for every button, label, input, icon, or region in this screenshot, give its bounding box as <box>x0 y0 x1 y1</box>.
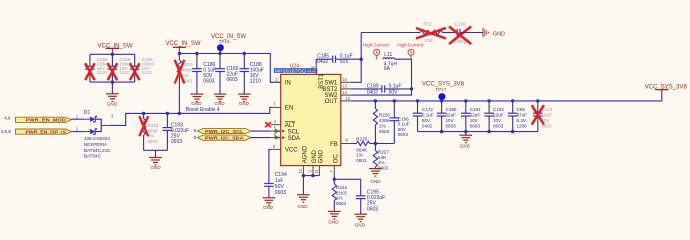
inductor L11 <box>383 52 398 72</box>
svg-text:0603: 0603 <box>470 124 481 129</box>
capacitor C160 <box>215 54 238 95</box>
junction (R219/EN) <box>178 112 181 115</box>
svg-text:High Current: High Current <box>363 43 390 48</box>
pin 14 SW2 <box>341 94 351 96</box>
junction (C191/bottom) <box>464 130 467 133</box>
svg-text:4,8: 4,8 <box>4 116 11 121</box>
pin 4 ALT (no connect, crossed) <box>265 119 296 129</box>
ground (C160) <box>214 94 227 106</box>
wire BST1 to C185 <box>316 58 333 60</box>
svg-text:R223: R223 <box>336 185 347 190</box>
svg-text:1206: 1206 <box>517 124 528 129</box>
capacitor C194 <box>264 172 287 198</box>
junction (left bank top) <box>111 53 114 56</box>
junction (SW2/C189/L11) <box>410 87 413 90</box>
junction (FB node) <box>374 142 377 145</box>
svg-text:GND: GND <box>151 165 162 170</box>
svg-text:106-2-00404: 106-2-00404 <box>84 136 110 141</box>
port PWR_EN_ISP_IS <box>16 129 72 135</box>
svg-text:NEXPERIA: NEXPERIA <box>84 142 108 147</box>
svg-text:14: 14 <box>342 90 347 95</box>
wire snubber top <box>361 32 420 34</box>
svg-text:1%: 1% <box>379 123 386 128</box>
svg-text:GND: GND <box>355 222 366 227</box>
capacitor C155 (not fitted) <box>85 54 110 82</box>
svg-text:C190: C190 <box>446 107 457 112</box>
wire C185 to SW1 node <box>336 58 362 60</box>
svg-text:C191: C191 <box>470 107 481 112</box>
svg-text:SW1: SW1 <box>324 81 338 87</box>
svg-text:GND: GND <box>214 101 225 106</box>
svg-text:ALT: ALT <box>285 123 296 129</box>
svg-text:OUT: OUT <box>325 99 338 105</box>
pin 1 IN <box>271 81 281 83</box>
svg-text:50V: 50V <box>340 59 350 65</box>
junction (C88/OUT) <box>511 99 514 102</box>
svg-text:PWR_EN_MOD: PWR_EN_MOD <box>26 118 67 124</box>
svg-text:47uF: 47uF <box>517 113 528 118</box>
svg-text:0402: 0402 <box>422 124 433 129</box>
pin 10 AGND (bottom) <box>302 166 304 176</box>
svg-text:12: 12 <box>345 96 350 101</box>
net label VCC_SYS_3V8 + testpoint TP17 <box>422 82 465 101</box>
ground (left cap bank) <box>106 82 119 107</box>
svg-text:C172: C172 <box>422 107 433 112</box>
ground (R212/C193) <box>149 150 162 170</box>
svg-text:High Current: High Current <box>397 43 424 48</box>
pin 13 BST2 <box>341 88 351 90</box>
junction (TP16-C160/rail) <box>218 52 221 55</box>
svg-text:0603: 0603 <box>446 124 457 129</box>
svg-text:0603: 0603 <box>148 139 159 144</box>
svg-text:GND: GND <box>460 144 471 149</box>
junction (SW1/L11/C185/snubber) <box>360 58 363 61</box>
svg-text:GND: GND <box>239 101 250 106</box>
wire R72 to C116 <box>443 32 458 34</box>
svg-text:EN: EN <box>285 106 293 112</box>
svg-text:R227: R227 <box>378 150 389 155</box>
svg-text:TP17: TP17 <box>435 87 446 92</box>
ground (C188) <box>238 94 251 106</box>
wire BST1 riser <box>315 59 317 65</box>
pin 1 stub D1 <box>84 118 90 120</box>
pin 16 BST1 (top) <box>311 65 325 89</box>
capacitor C88 <box>508 101 527 132</box>
svg-text:0603: 0603 <box>493 124 504 129</box>
wire FB network bottom <box>375 143 394 145</box>
svg-text:C189: C189 <box>367 83 379 89</box>
svg-text:1210: 1210 <box>250 79 261 85</box>
svg-text:10E: 10E <box>425 38 433 43</box>
wire VCC_IN_SW rail to IC IN pin <box>179 54 280 83</box>
capacitor C123 (not fitted) <box>532 101 553 132</box>
svg-text:0603: 0603 <box>203 79 214 85</box>
svg-text:0402: 0402 <box>317 59 328 65</box>
svg-text:GND: GND <box>107 102 118 107</box>
junction (C186/rail) <box>195 52 198 55</box>
ground (C194) <box>263 198 276 210</box>
svg-text:FB: FB <box>330 142 338 148</box>
svg-text:BAT54C: BAT54C <box>84 153 102 158</box>
svg-text:9A: 9A <box>384 66 391 72</box>
capacitor C191 <box>461 101 481 132</box>
svg-text:10V: 10V <box>470 118 479 123</box>
resistor R223 <box>332 179 347 211</box>
svg-text:VCC_IN_SW: VCC_IN_SW <box>166 41 201 47</box>
svg-text:GND: GND <box>297 204 308 209</box>
svg-text:C116: C116 <box>455 22 466 27</box>
svg-text:1210: 1210 <box>142 70 153 75</box>
svg-text:54K: 54K <box>378 155 387 160</box>
pin 8 FB <box>341 143 351 145</box>
junction (C191/OUT) <box>464 99 467 102</box>
resistor R212 (not fitted) <box>139 113 159 150</box>
wire L11 right riser to SW2 <box>395 59 412 89</box>
svg-text:6.3V: 6.3V <box>517 118 527 123</box>
ground (output caps) <box>460 132 473 149</box>
svg-text:PWR_I2C_SDA: PWR_I2C_SDA <box>205 136 244 142</box>
svg-text:499K: 499K <box>182 68 194 73</box>
capacitor C193 <box>163 113 190 150</box>
wire R212/C193 bottoms <box>144 149 168 151</box>
junction (C193/EN) <box>166 112 169 115</box>
svg-text:4,6,8: 4,6,8 <box>1 129 12 134</box>
svg-text:GND: GND <box>328 220 339 225</box>
svg-text:10V: 10V <box>493 118 502 123</box>
svg-text:VCC: VCC <box>285 148 298 154</box>
ground (C195) <box>354 214 367 227</box>
capacitor C188 <box>240 54 264 95</box>
svg-text:L11: L11 <box>384 52 392 58</box>
capacitor C192 <box>484 101 504 132</box>
svg-text:AGND: AGND <box>303 145 309 163</box>
svg-text:0603: 0603 <box>398 132 409 137</box>
capacitor C172 <box>413 101 434 132</box>
junction (OC) <box>333 178 336 181</box>
svg-text:IN: IN <box>285 81 291 87</box>
svg-text:C192: C192 <box>493 107 504 112</box>
junction (C196/OUT) <box>393 99 396 102</box>
svg-text:50V: 50V <box>422 118 431 123</box>
wire output caps bottom rail <box>418 131 538 133</box>
svg-text:0603: 0603 <box>378 166 389 171</box>
svg-text:GND: GND <box>191 101 202 106</box>
ground (C186) <box>191 94 204 106</box>
junction (GND pin2) <box>311 174 314 177</box>
junction (C192/bottom) <box>487 130 490 133</box>
wire VCC pin to C194 <box>269 149 271 183</box>
svg-text:22uF: 22uF <box>541 113 552 118</box>
wire OC to C195 <box>334 179 360 196</box>
power port VCC_IN_SW (left cap bank) <box>98 43 133 54</box>
svg-text:OC: OC <box>334 154 340 164</box>
ground (snubber, rotated) <box>483 28 505 38</box>
svg-text:VCC_SYS_3V8: VCC_SYS_3V8 <box>645 84 688 90</box>
capacitor C116 (not fitted) <box>449 22 471 44</box>
svg-text:GND: GND <box>370 179 381 184</box>
wire port2 to D1 anode 2 <box>71 131 84 133</box>
pin 9 VCC <box>271 148 281 150</box>
svg-text:16: 16 <box>311 65 316 70</box>
resistor R219 (not fitted, pull-up to EN) <box>175 54 194 114</box>
svg-text:GND: GND <box>312 149 318 163</box>
svg-text:0603: 0603 <box>275 190 286 196</box>
svg-text:22uF: 22uF <box>493 113 504 118</box>
junction (left bank bottom) <box>111 80 114 83</box>
pin 6 SDA <box>271 132 300 142</box>
svg-text:GND: GND <box>493 31 505 37</box>
pin 7 OC (bottom) <box>333 166 335 176</box>
junction (R226/OUT) <box>374 99 377 102</box>
wire OUT rail <box>351 90 662 101</box>
wire D1 output to EN pin <box>110 107 271 125</box>
junction (R219/rail) <box>178 52 181 55</box>
svg-text:1210: 1210 <box>97 70 108 75</box>
svg-text:0603: 0603 <box>227 77 238 83</box>
svg-text:SDA: SDA <box>288 136 300 142</box>
IC U24 MP28167GQ-A-F <box>274 63 341 165</box>
resistor R220 (FB) <box>351 136 376 163</box>
svg-text:8: 8 <box>194 135 197 140</box>
power port VCC_SYS_3V8 (right) <box>645 84 688 90</box>
svg-text:D1: D1 <box>84 110 91 116</box>
capacitor C190 <box>437 101 457 132</box>
svg-text:1210: 1210 <box>119 70 130 75</box>
svg-text:PWR_I2C_SCL: PWR_I2C_SCL <box>205 129 244 135</box>
svg-text:GND: GND <box>263 205 274 210</box>
svg-text:0603: 0603 <box>379 129 390 134</box>
svg-text:0603: 0603 <box>356 158 367 163</box>
wire SW2 pin <box>351 89 412 95</box>
diode D1 dual schottky BAT54C <box>84 110 114 158</box>
pin 2 GND (bottom) <box>312 166 314 176</box>
port PWR_EN_MOD <box>16 117 72 123</box>
svg-text:8: 8 <box>194 128 197 133</box>
junction (C190/OUT) <box>440 99 443 102</box>
svg-text:10V: 10V <box>446 118 455 123</box>
port PWR_I2C_SDA <box>197 135 251 141</box>
svg-text:22uF: 22uF <box>470 113 481 118</box>
high current directive 2 <box>397 43 424 60</box>
ground (R227) <box>369 169 382 184</box>
junction (C188/rail) <box>243 52 246 55</box>
wire AGND/GND/GND pins <box>303 175 319 177</box>
wire top rail of left cap bank <box>90 53 135 55</box>
junction (C190/bottom) <box>440 130 443 133</box>
wire SW1 pin riser <box>351 33 361 83</box>
capacitor C185 <box>317 53 352 65</box>
junction (C123/OUT) <box>536 99 539 102</box>
svg-text:1%: 1% <box>336 196 343 201</box>
resistor R226 <box>373 101 390 144</box>
wire port1 to D1 anode 1 <box>71 118 84 120</box>
svg-text:R220: R220 <box>356 136 367 141</box>
junction (C172/OUT) <box>416 99 419 102</box>
capacitor C159 (not fitted) <box>130 54 155 82</box>
svg-text:C88: C88 <box>517 107 526 112</box>
high current directive 1 <box>363 43 390 60</box>
pin 5 SCL <box>271 126 300 136</box>
port PWR_I2C_SCL <box>197 128 251 134</box>
ground (R223) <box>328 211 341 224</box>
junction (AGND) <box>302 174 305 177</box>
wire C116 to ground <box>460 32 483 34</box>
svg-text:BAT54C,215: BAT54C,215 <box>84 148 110 153</box>
capacitor C186 <box>192 54 216 95</box>
svg-text:1%: 1% <box>378 160 385 165</box>
svg-text:0603: 0603 <box>336 201 347 206</box>
svg-text:15: 15 <box>342 77 347 82</box>
power port VCC_IN_SW (R219 pull-up) <box>166 41 201 53</box>
svg-text:BST2: BST2 <box>322 87 338 93</box>
power port VCC_IN_SW + testpoint TP16 <box>211 34 246 53</box>
svg-text:21K5: 21K5 <box>336 190 347 195</box>
svg-text:R72: R72 <box>423 22 432 27</box>
svg-text:22uF: 22uF <box>446 113 457 118</box>
svg-text:PWR_EN_ISP_IS: PWR_EN_ISP_IS <box>26 129 67 135</box>
svg-text:0603: 0603 <box>171 139 182 145</box>
junction (R212/EN) <box>142 112 145 115</box>
wire bottom rail of left cap bank <box>90 81 135 83</box>
svg-text:13: 13 <box>342 84 347 89</box>
wire BST2 to C189 <box>351 88 382 90</box>
wire OC node <box>333 176 335 180</box>
pin 2 stub D1 <box>84 131 90 133</box>
svg-text:0603: 0603 <box>367 206 378 212</box>
svg-text:11: 11 <box>314 169 319 174</box>
wire C189 to SW2 node <box>385 88 412 90</box>
junction (C88/bottom) <box>511 130 514 133</box>
svg-text:GND: GND <box>319 149 325 163</box>
svg-text:430K: 430K <box>379 118 391 123</box>
pin 12 OUT <box>341 100 351 102</box>
resistor R72 (not fitted) <box>416 22 446 43</box>
svg-text:TP16: TP16 <box>219 39 230 44</box>
svg-text:0.1uF: 0.1uF <box>422 113 434 118</box>
pin 15 SW1 <box>341 81 351 83</box>
svg-text:SCL: SCL <box>288 129 300 135</box>
pin 3 EN <box>271 106 281 108</box>
wire SCL <box>251 130 271 132</box>
svg-text:R226: R226 <box>379 112 390 117</box>
capacitor C195 <box>356 189 385 214</box>
capacitor C196 <box>390 101 410 144</box>
capacitor C189 <box>367 83 402 95</box>
capacitor C156 (not fitted) <box>108 54 133 82</box>
junction (C192/OUT) <box>487 99 490 102</box>
wire SDA <box>251 137 271 139</box>
pin 11 GND (bottom) <box>318 166 320 176</box>
svg-text:10: 10 <box>298 168 303 173</box>
resistor R227 <box>373 144 389 171</box>
ground (IC GND pins) <box>297 176 310 210</box>
svg-text:Boost Enable 4: Boost Enable 4 <box>186 107 220 113</box>
